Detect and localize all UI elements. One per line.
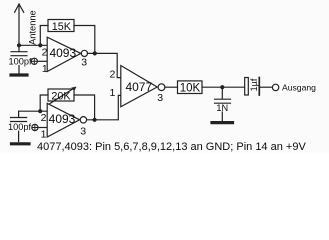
wire gate A output to 4077 pin 2 xyxy=(88,53,121,77)
bubble gate B output xyxy=(80,117,86,123)
svg-text:4077,4093: Pin 5,6,7,8,9,12,13: 4077,4093: Pin 5,6,7,8,9,12,13 an GND; P… xyxy=(37,141,306,153)
ground GND3 xyxy=(212,121,233,124)
resistor R3 10K xyxy=(178,81,203,94)
svg-text:4077: 4077 xyxy=(125,80,152,94)
wire 10K to output cap xyxy=(202,86,245,88)
svg-text:2: 2 xyxy=(41,112,47,124)
wire gate B output to 4077 pin 1 xyxy=(87,95,121,119)
wire 15K left to input node xyxy=(40,26,48,46)
antenna xyxy=(15,4,24,45)
node feedback B input xyxy=(38,109,42,113)
capacitor C3 1N xyxy=(215,87,231,121)
svg-text:2: 2 xyxy=(42,47,48,59)
node gate B output junction xyxy=(93,118,97,122)
wire test point A to gate A pin 1 xyxy=(37,60,47,62)
ground GND1 xyxy=(11,73,27,76)
resistor R1 15K xyxy=(48,20,74,32)
wire 15K right to output node xyxy=(74,26,95,54)
svg-text:Antenne: Antenne xyxy=(27,10,37,45)
capacitor C2 100pf xyxy=(11,111,27,141)
svg-text:1: 1 xyxy=(41,129,47,141)
terminal test point B xyxy=(32,124,38,130)
svg-text:1N: 1N xyxy=(216,103,228,113)
svg-text:3: 3 xyxy=(157,92,163,104)
svg-text:2: 2 xyxy=(109,69,115,81)
svg-text:4093: 4093 xyxy=(49,112,76,126)
svg-text:20K: 20K xyxy=(51,91,71,103)
node output rail junction xyxy=(220,85,224,89)
xnor gate U2 4077 xyxy=(121,66,157,107)
svg-text:1: 1 xyxy=(42,63,48,75)
wire antenna node to gate A pin 2 xyxy=(19,44,47,46)
svg-text:1µf: 1µf xyxy=(249,78,259,91)
svg-text:3: 3 xyxy=(80,125,86,137)
node gate A output junction xyxy=(93,51,97,55)
svg-text:100pf: 100pf xyxy=(9,56,32,66)
svg-text:100pf: 100pf xyxy=(8,122,31,132)
ground GND2 xyxy=(12,142,30,145)
wire 4077 output to 10K xyxy=(165,86,178,88)
nand gate U1a 4093 xyxy=(47,37,81,71)
trimmer R2 20K xyxy=(48,87,77,104)
svg-text:3: 3 xyxy=(81,57,87,69)
bubble gate A output xyxy=(81,50,87,56)
node antenna junction xyxy=(17,43,21,47)
svg-text:4093: 4093 xyxy=(49,46,76,60)
capacitor C1 100pf xyxy=(11,45,27,73)
bubble 4077 output xyxy=(158,84,165,91)
terminal Ausgang xyxy=(272,84,278,90)
svg-text:15K: 15K xyxy=(52,21,72,33)
capacitor C4 1u electrolytic xyxy=(245,78,273,96)
svg-text:Ausgang: Ausgang xyxy=(282,83,316,93)
svg-text:1: 1 xyxy=(109,87,115,99)
node feedback A input xyxy=(38,43,42,47)
wire 20K left to input node xyxy=(40,95,48,111)
wire test point B to gate B pin 1 xyxy=(38,127,47,129)
svg-text:10K: 10K xyxy=(180,82,201,94)
terminal test point A xyxy=(31,58,37,64)
wire cap B node to gate B pin 2 xyxy=(19,110,48,112)
nand gate U1b 4093 xyxy=(47,103,79,137)
wire 20K right to output node xyxy=(74,95,95,120)
